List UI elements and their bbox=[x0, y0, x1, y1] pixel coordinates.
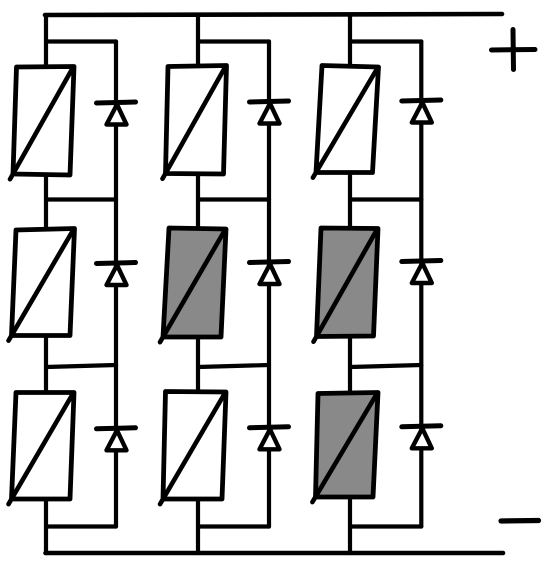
wire: string 3 link row2-row3 bbox=[348, 334, 352, 395]
PV module shaded M33 bbox=[312, 393, 378, 503]
bypass diode D32 bbox=[250, 427, 289, 450]
wire: string 2 drop from top bus bbox=[196, 15, 200, 70]
PV module M32 bbox=[160, 392, 226, 505]
bypass diode D23 bbox=[402, 261, 441, 284]
wire: string 3 drop from top bus bbox=[348, 15, 352, 70]
wire: bypass diode 3-3 vertical bbox=[419, 366, 423, 527]
wire: bypass branch top, string 3 bbox=[350, 39, 421, 43]
junction: string 3 node B3 bbox=[350, 365, 421, 367]
bypass diode D13 bbox=[402, 100, 441, 123]
bypass diode D11 bbox=[97, 102, 136, 125]
PV module shaded M22 bbox=[160, 228, 226, 342]
PV module M31 bbox=[9, 393, 75, 505]
junction: string 2 node B2 bbox=[198, 365, 269, 367]
junction: string 2 node C2 bbox=[198, 524, 269, 528]
junction: string 1 node C1 bbox=[46, 524, 116, 528]
PV module shaded M23 bbox=[314, 228, 379, 342]
wire: string 2 link row1-row2 bbox=[196, 172, 200, 232]
wire: bypass branch top, string 2 bbox=[198, 39, 269, 43]
wire: bypass diode 2-2 vertical bbox=[267, 200, 271, 367]
wire: bottom negative bus bbox=[46, 551, 504, 556]
junction: string 1 node B1 bbox=[46, 365, 116, 367]
junction: string 2 node A2 bbox=[198, 197, 269, 201]
positive terminal (+) bbox=[492, 30, 536, 70]
bypass diode D21 bbox=[97, 263, 136, 286]
wire: string 1 link row1-row2 bbox=[44, 172, 48, 232]
junction: string 3 node C3 bbox=[350, 524, 421, 528]
wire: string 1 to bottom bus bbox=[44, 497, 48, 554]
wire: string 2 to bottom bus bbox=[196, 497, 200, 554]
wire: bypass diode 3-2 vertical bbox=[419, 200, 423, 367]
wire: string 3 to bottom bus bbox=[348, 497, 352, 554]
bypass diode D22 bbox=[250, 262, 289, 285]
wire: bypass branch top, string 1 bbox=[46, 39, 116, 43]
wire: bypass diode 1-3 vertical bbox=[114, 366, 118, 527]
junction: string 1 node A1 bbox=[46, 197, 116, 201]
PV module M13 bbox=[313, 66, 379, 178]
wire: bypass diode 1-2 vertical bbox=[114, 200, 118, 367]
bypass diode D33 bbox=[402, 426, 441, 449]
bypass diode D31 bbox=[97, 428, 136, 451]
junction: string 3 node A3 bbox=[350, 197, 421, 201]
negative terminal (-) bbox=[501, 518, 539, 524]
PV module M11 bbox=[10, 67, 74, 180]
wire: string 3 link row1-row2 bbox=[348, 172, 352, 232]
bypass diode D12 bbox=[250, 101, 289, 124]
wire: bypass diode 2-1 vertical bbox=[267, 42, 271, 200]
wire: string 1 link row2-row3 bbox=[44, 334, 48, 395]
wire: top positive bus bbox=[45, 14, 502, 15]
wire: string 2 link row2-row3 bbox=[196, 334, 200, 395]
PV module M12 bbox=[163, 66, 227, 179]
wire: bypass diode 2-3 vertical bbox=[267, 366, 271, 527]
wire: bypass diode 1-1 vertical bbox=[114, 42, 118, 200]
wire: string 1 drop from top bus bbox=[44, 15, 48, 70]
wire: bypass diode 3-1 vertical bbox=[419, 42, 423, 200]
PV module M21 bbox=[9, 229, 75, 341]
